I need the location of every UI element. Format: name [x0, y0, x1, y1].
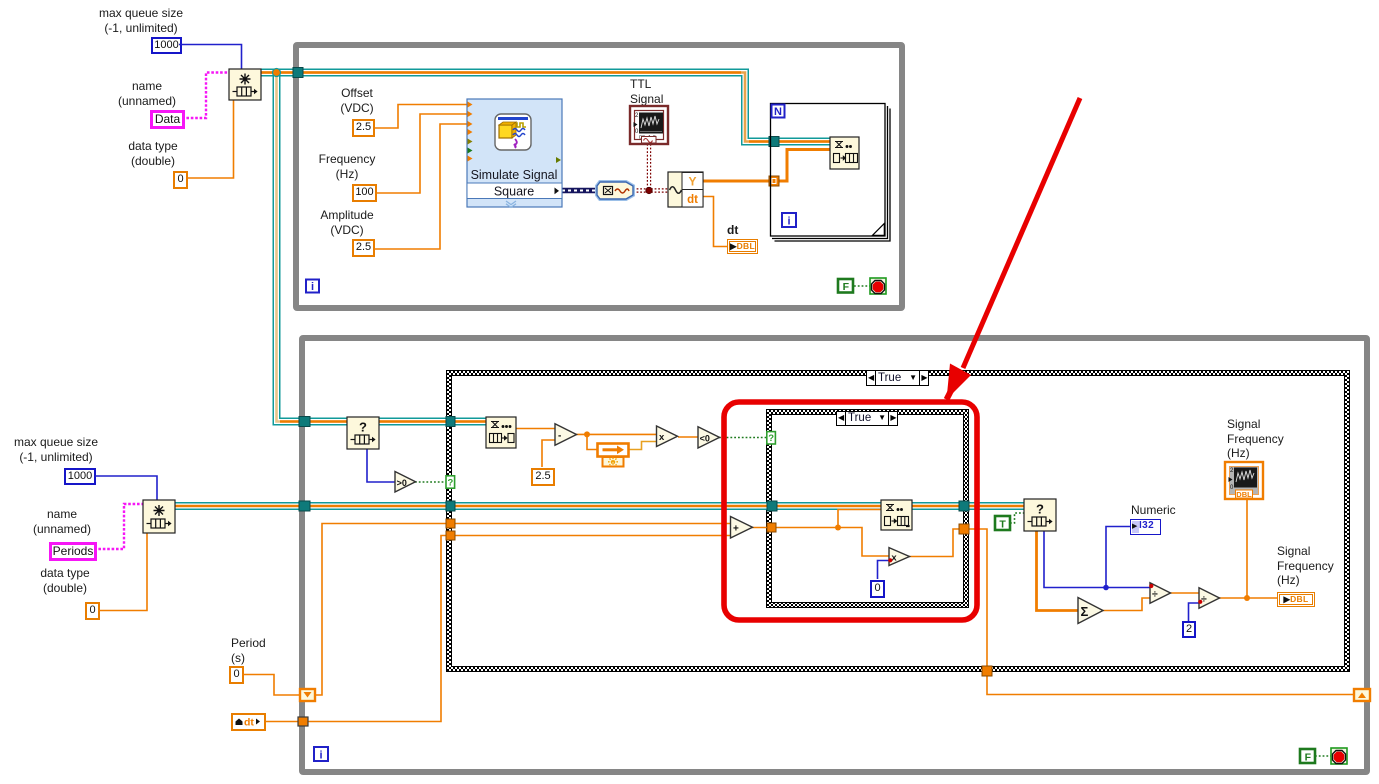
wire: Data queue branch down the left side into bottom loop dequeue [277, 76, 487, 422]
numeric constant 0 (data type, top) [173, 171, 188, 189]
tunnel: dt into bottom loop [298, 717, 308, 726]
node: Obtain Queue (Data) [229, 69, 261, 100]
stop button terminal (bottom loop) [1331, 748, 1347, 764]
label: Amplitude (VDC) [314, 208, 380, 237]
node: junction dot at subtract output [584, 431, 590, 437]
wire: shift register left to add (through case tunnel) [315, 524, 446, 696]
wire: divide result to second divide [1169, 592, 1199, 594]
svg-text:i: i [319, 750, 322, 762]
svg-text:<0: <0 [700, 433, 710, 443]
node: less than 0? [698, 427, 720, 448]
svg-text:Simulate Signal: Simulate Signal [471, 168, 558, 182]
svg-text:Square: Square [494, 185, 534, 199]
wire: 0 data type to Obtain Queue 2 [98, 533, 147, 611]
tunnel: Data queue into bottom loop [299, 417, 310, 427]
while loop (top producer loop) border [293, 42, 905, 311]
For loop count terminal N [772, 105, 785, 119]
wire: array sum to divide lower input [1102, 598, 1150, 611]
svg-text:÷: ÷ [1201, 593, 1207, 605]
string constant Data [150, 110, 185, 129]
node: junction dot on count wire [1103, 585, 1109, 591]
wire: Data queue refnum out of Obtain Queue, into top loop, down to bottom loop [260, 73, 830, 142]
label: Signal Frequency (Hz) chart [1227, 417, 1284, 461]
wire: Periods queue refnum from Obtain Queue 2 across bottom loop to Flush Queue [175, 502, 1024, 510]
indicator: Signal Frequency (Hz) chart terminal [1225, 462, 1263, 499]
label: name (unnamed) top [112, 79, 182, 108]
node: Dequeue Element (in case) [486, 417, 516, 448]
svg-text:?: ? [447, 477, 453, 488]
node: Enqueue Element (For loop) [830, 137, 859, 169]
numeric constant 100 (Frequency) [352, 184, 377, 202]
tunnel: Periods queue out of inner case [959, 501, 969, 511]
wire: 2.5 constant to subtract [542, 440, 555, 467]
case selector terminal ? (inner case) [767, 432, 776, 445]
wire: Y array (thick orange) from components to For-loop tunnel and enqueue [703, 150, 830, 182]
tunnel: queue wire into top loop [293, 68, 303, 78]
wire: flushed element array (thick orange) to sum-array [1037, 531, 1079, 611]
node: add array elements (sigma) [1078, 598, 1103, 624]
For loop iteration terminal i [782, 213, 796, 228]
label: name (unnamed) bottom [27, 507, 97, 536]
numeric constant 2 (blue) [1182, 621, 1196, 638]
node: junction dot at frequency wire [1244, 595, 1250, 601]
wire: dynamic data from Simulate Signal Square output to convert node [562, 188, 600, 193]
tunnel: dt value into case (lower) [446, 531, 455, 540]
shift register right terminal [1354, 689, 1370, 701]
svg-text:T: T [999, 518, 1006, 530]
node: divide (first) [1150, 583, 1171, 603]
node: add [731, 517, 753, 539]
node: Get Waveform Components (Y, dt) [668, 172, 703, 207]
tunnel: Periods queue into case [446, 501, 455, 511]
indicator: Signal Frequency DBL terminal [1277, 592, 1315, 607]
svg-text:+: + [733, 523, 739, 534]
wire: Data name string (pink dashed) to Obtain Queue [182, 73, 229, 119]
svg-text:-: - [558, 431, 561, 442]
tunnel: Y array into For loop (indexing) [769, 176, 779, 186]
label: TTL Signal [630, 77, 663, 106]
node: coercion dot at second divide input [1198, 600, 1202, 604]
boolean constant T [995, 516, 1010, 530]
tunnel: Data queue into case [446, 417, 455, 427]
wire: 2 constant (blue) to second divide [1189, 603, 1200, 622]
svg-text:F: F [843, 281, 850, 293]
wire: waveform branch up to TTL Signal chart [647, 144, 650, 190]
while loop (bottom consumer loop) border [299, 335, 1370, 775]
wire: F constant to top loop stop terminal (green dotted) [854, 285, 870, 287]
wire: boolean (green dotted) from greater-than-0 to case selector [415, 481, 446, 483]
tunnel: Periods queue into inner case [767, 501, 777, 511]
label: Offset (VDC) [331, 86, 383, 115]
node: coercion dot at multiply input (inner case) [888, 558, 892, 562]
svg-text:DBL: DBL [1236, 490, 1252, 499]
label: max queue size (-1, unlimited) bottom [11, 435, 101, 464]
wire: dt scalar to dt indicator [703, 197, 727, 247]
svg-text:dt: dt [687, 194, 698, 206]
control: dt feedthrough terminal [231, 713, 266, 731]
wire: sum wire inside inner case to enqueue element input [777, 510, 881, 528]
node: greater than 0? [395, 472, 416, 493]
shift register left terminal [300, 689, 315, 701]
tunnel: sum into inner case [767, 523, 776, 532]
wire: Amplitude 2.5 to Simulate Signal [374, 124, 467, 249]
numeric constant 0 (Period) [229, 666, 244, 684]
label: Frequency (Hz) [314, 152, 380, 181]
wire: add output into inner case [752, 527, 777, 529]
wire: T constant (green dotted) to flush queue [1010, 513, 1024, 523]
case selector terminal ? (outer case) [446, 476, 455, 489]
stop button terminal (top loop) [870, 278, 886, 294]
label: data type (double) top [120, 139, 186, 168]
wire: multiply result to less-than-0 [678, 436, 698, 438]
wire: Offset 2.5 to Simulate Signal [374, 105, 467, 129]
boolean constant F (bottom loop) [1300, 749, 1315, 763]
string constant Periods [49, 542, 97, 561]
tunnel: queue wire into For loop [769, 137, 779, 147]
case structure (outer True case) dithered border [446, 370, 1350, 672]
wire: boolean (green dotted) from less-than-0 to inner case selector [719, 437, 767, 439]
svg-text:F: F [1305, 751, 1312, 763]
svg-text:i: i [787, 216, 790, 228]
tunnel: Periods queue into bottom loop [299, 501, 310, 511]
svg-text:x: x [659, 432, 665, 443]
node: Convert from Dynamic Data [597, 182, 633, 199]
wire: Frequency 100 to Simulate Signal [376, 114, 467, 193]
tunnel: product out of inner case [959, 524, 969, 534]
node: waveform wire junction dot [646, 187, 652, 193]
wire: subtract result branch into feedback node [587, 434, 597, 449]
node: multiply (inner case) [889, 548, 910, 566]
wire: Periods name string (pink dashed) to Obtain Queue 2 [94, 504, 143, 549]
node: Obtain Queue (Periods) [143, 500, 175, 533]
svg-text:Y: Y [688, 175, 696, 189]
label: data type (double) bottom [32, 566, 98, 595]
svg-text:N: N [774, 106, 782, 118]
numeric constant 0 (data type, bottom) [85, 602, 100, 620]
numeric constant 0 (blue, inner case) [870, 580, 885, 598]
label: Numeric [1131, 503, 1176, 518]
tunnel: period value out of case bottom [982, 666, 992, 676]
node: feedback node [598, 444, 629, 467]
annotation: red arrow pointing to inner case [947, 98, 1081, 400]
numeric constant 1000 (bottom) [64, 468, 96, 485]
svg-text:>0: >0 [397, 478, 407, 488]
wire: subtract result to multiply [576, 433, 657, 435]
node: Dequeue Element ? (wait for data) [347, 417, 379, 449]
numeric constant 1000 (top) [151, 37, 182, 54]
wire: waveform (maroon dotted) from convert node to Get Waveform Components [633, 189, 668, 192]
case structure (inner True case) dithered border [766, 409, 969, 608]
wire: case tunnel to add lower input [455, 535, 731, 537]
while loop 1 iteration terminal i [306, 280, 319, 294]
wire: F constant to bottom loop stop terminal (green dotted) [1315, 755, 1331, 757]
tunnel: shift register value into case (upper) [446, 519, 455, 528]
label: dt [727, 223, 738, 238]
svg-text:dt: dt [244, 717, 254, 729]
svg-text:÷: ÷ [1152, 588, 1158, 600]
node: Enqueue Element at opposite end (inner case) [881, 500, 912, 530]
wire: 1000 to Obtain Queue (top, blue I32) [179, 45, 242, 70]
indicator: Numeric I32 terminal [1130, 519, 1161, 535]
wire: case tunnel to add upper input [455, 523, 731, 525]
wire: 0 data type to Obtain Queue (top) [186, 100, 234, 178]
while loop 2 iteration terminal i [314, 747, 328, 762]
numeric constant 2.5 (Offset) [352, 119, 375, 137]
indicator: dt DBL terminal [727, 239, 758, 254]
node: junction dot on sum wire [835, 525, 841, 531]
numeric constant 2.5 (Amplitude) [352, 239, 375, 257]
indicator: TTL Signal waveform chart terminal [630, 106, 668, 144]
wire: dequeue status (blue) to greater-than-0 [367, 449, 395, 482]
svg-text:?: ? [1036, 502, 1044, 517]
wire: Period shift register init from 0 constant [242, 675, 300, 696]
node: multiply (upper) [657, 426, 678, 447]
label: Period (s) [231, 636, 266, 665]
wire: sum branch to multiply-by-zero [838, 528, 889, 557]
svg-text:?: ? [359, 420, 367, 435]
For loop page dog-ear [873, 224, 885, 236]
case selector label (outer case): True [866, 370, 929, 386]
svg-text:?: ? [768, 433, 774, 444]
wire: 0 constant (blue) to multiply [878, 561, 890, 580]
wire: number of elements (blue) to divide and Numeric indicator [1044, 527, 1150, 588]
For loop (stacked) border [771, 104, 891, 242]
wire: dequeued element to subtract [516, 428, 555, 430]
svg-text:x: x [891, 553, 897, 564]
label: Signal Frequency (Hz) numeric [1277, 544, 1334, 588]
node: divide by 2 [1199, 588, 1220, 608]
svg-text:Σ: Σ [1081, 604, 1089, 619]
node: subtract [555, 424, 577, 445]
wire: multiply result out of inner case to shift register [909, 529, 1354, 695]
node: queue wire junction dot [273, 69, 281, 77]
node: Simulate Signal express VI [467, 99, 562, 207]
wire: frequency result to chart and DBL indicator [1218, 498, 1277, 598]
svg-text:i: i [311, 281, 314, 293]
wire: dt control to case tunnel [266, 536, 446, 722]
label: max queue size (-1, unlimited) top [96, 6, 186, 35]
wire: feedback node output to multiply lower input [629, 442, 657, 450]
node: Flush Queue ? [1024, 499, 1056, 531]
wire: 1000 to Obtain Queue 2 (blue) [95, 476, 157, 500]
numeric constant 2.5 (in case) [531, 468, 555, 486]
boolean constant F (top loop) [838, 279, 853, 293]
case selector label (inner case): True [836, 411, 898, 426]
node: coercion dot at first divide input [1149, 584, 1153, 588]
